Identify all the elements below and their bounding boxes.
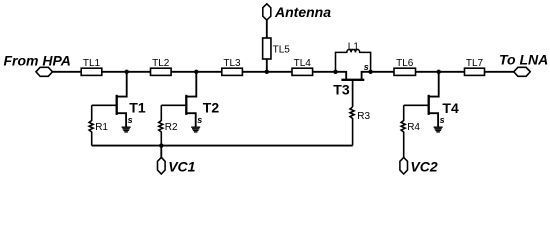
svg-text:TL4: TL4 [294, 58, 312, 69]
transmission line TL6 [394, 68, 416, 75]
svg-text:TL3: TL3 [223, 58, 241, 69]
ground of T2 [191, 127, 200, 132]
node junction antenna branch [265, 70, 269, 74]
wire TL5 to main line [266, 59, 268, 72]
port P1 From HPA [36, 67, 53, 76]
svg-text:s: s [197, 115, 202, 125]
resistor R1 [89, 105, 93, 145]
svg-text:TL1: TL1 [83, 58, 101, 69]
transmission line TL4 [292, 68, 313, 75]
wire TL7 to port [485, 71, 514, 73]
resistor R3 [350, 107, 354, 146]
svg-text:R3: R3 [357, 111, 370, 122]
svg-text:From HPA: From HPA [4, 53, 71, 69]
node junction VC1 [159, 143, 163, 147]
transmission line TL3 [222, 68, 243, 75]
inductor L1 [336, 49, 371, 71]
ground of T1 [122, 127, 131, 132]
svg-text:TL6: TL6 [396, 58, 414, 69]
node junction T3 drain / L1 left [333, 70, 337, 74]
port P2 Antenna [263, 4, 271, 20]
resistor R4 [401, 105, 405, 157]
svg-text:T3: T3 [333, 82, 350, 98]
transmission line TL5 [263, 38, 271, 59]
svg-text:TL7: TL7 [466, 58, 484, 69]
transistor T2 [186, 72, 196, 97]
node junction T2 drain [194, 70, 198, 74]
transmission line TL7 [465, 68, 485, 75]
svg-text:TL2: TL2 [152, 58, 170, 69]
node junction T1 drain [125, 70, 129, 74]
transistor T3 [336, 72, 347, 80]
svg-text:L1: L1 [348, 42, 360, 53]
wire TL3 to TL4 [242, 71, 292, 73]
wire T3 to TL6 [371, 71, 394, 73]
wire antenna to TL5 [266, 20, 268, 38]
wire bus to VC1 port [160, 146, 162, 158]
transmission line TL2 [151, 68, 172, 75]
port P3 To LNA [514, 67, 531, 76]
wire bias bus VC1 [92, 145, 353, 147]
wire TL2 to TL3 [171, 71, 222, 73]
svg-text:s: s [364, 62, 369, 72]
svg-text:R2: R2 [165, 122, 178, 133]
port P4 VC1 [158, 157, 166, 174]
wire TL1 to TL2 [102, 71, 151, 73]
svg-text:s: s [128, 115, 133, 125]
wire port1 to TL1 [52, 71, 81, 73]
svg-text:T2: T2 [203, 99, 220, 115]
node junction T3 source / L1 right [368, 70, 372, 74]
svg-text:VC1: VC1 [168, 159, 195, 175]
transmission line TL1 [81, 68, 102, 75]
wire TL6 to TL7 [416, 71, 465, 73]
svg-text:T1: T1 [129, 99, 146, 115]
svg-text:Antenna: Antenna [274, 4, 331, 20]
wire TL4 to T3 [313, 71, 336, 73]
port P5 VC2 [400, 157, 408, 174]
svg-text:To LNA: To LNA [499, 52, 548, 68]
svg-text:VC2: VC2 [410, 159, 437, 175]
svg-text:TL5: TL5 [273, 44, 291, 55]
transistor T4 [429, 72, 439, 97]
ground of T4 [434, 127, 443, 132]
svg-text:R1: R1 [95, 122, 108, 133]
resistor R2 [159, 105, 163, 145]
node junction T4 drain [437, 70, 441, 74]
svg-text:T4: T4 [442, 100, 459, 116]
transistor T1 [117, 72, 127, 97]
svg-text:s: s [440, 115, 445, 125]
svg-text:R4: R4 [407, 122, 420, 133]
